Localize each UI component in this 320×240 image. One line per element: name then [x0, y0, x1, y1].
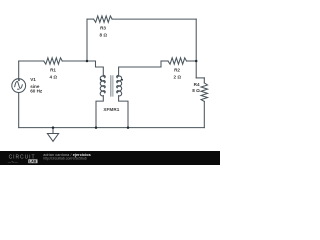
svg-text:4 Ω: 4 Ω: [50, 75, 58, 80]
svg-text:60 Hz: 60 Hz: [30, 89, 43, 94]
svg-text:LAB: LAB: [29, 160, 37, 164]
svg-text:XFMR1: XFMR1: [103, 107, 119, 112]
svg-text:2 Ω: 2 Ω: [174, 75, 182, 80]
svg-text:8 Ω: 8 Ω: [100, 33, 108, 38]
svg-text:R2: R2: [174, 68, 180, 73]
svg-text:http:⁄⁄circuitlab.com⁄c⁄5e56u6: http:⁄⁄circuitlab.com⁄c⁄5e56u6: [43, 157, 87, 161]
svg-text:R4: R4: [194, 82, 200, 87]
svg-text:—∿—: —∿—: [8, 160, 19, 164]
svg-text:8 Ω: 8 Ω: [192, 88, 200, 93]
svg-text:V1: V1: [30, 77, 36, 82]
svg-text:R3: R3: [100, 26, 106, 31]
svg-text:R1: R1: [50, 68, 56, 73]
